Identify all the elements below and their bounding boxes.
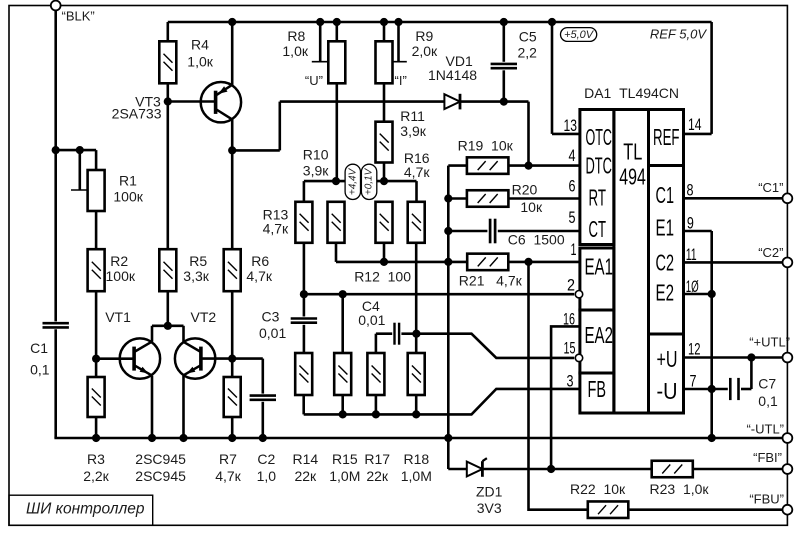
svg-text:2,2: 2,2	[518, 45, 538, 61]
svg-text:E2: E2	[656, 280, 675, 306]
svg-text:+U: +U	[657, 346, 678, 372]
svg-text:0,01: 0,01	[259, 325, 286, 341]
svg-text:C3: C3	[262, 308, 280, 324]
svg-text:0,01: 0,01	[358, 312, 385, 328]
svg-text:0,1: 0,1	[758, 393, 778, 409]
svg-text:R17: R17	[364, 451, 390, 467]
svg-text:3: 3	[567, 372, 574, 391]
svg-text:VT1: VT1	[105, 309, 131, 325]
svg-text:“U”: “U”	[305, 73, 323, 88]
svg-text:TL: TL	[623, 139, 642, 165]
svg-text:0,1: 0,1	[30, 362, 50, 378]
svg-text:100к: 100к	[106, 268, 136, 284]
svg-text:FB: FB	[588, 376, 607, 402]
svg-text:“FBU”: “FBU”	[749, 492, 784, 507]
svg-text:“BLK”: “BLK”	[62, 9, 95, 24]
svg-text:6: 6	[569, 177, 576, 196]
svg-text:9: 9	[687, 214, 694, 233]
svg-text:C7: C7	[758, 375, 776, 391]
svg-text:“-UTL”: “-UTL”	[746, 422, 784, 437]
svg-text:+0,1V: +0,1V	[364, 167, 375, 195]
svg-text:4,7к: 4,7к	[246, 268, 272, 284]
svg-text:1,0: 1,0	[257, 468, 277, 484]
svg-text:14: 14	[688, 115, 702, 134]
svg-text:4,7к: 4,7к	[215, 468, 241, 484]
svg-text:1N4148: 1N4148	[428, 67, 477, 83]
svg-text:“C1”: “C1”	[758, 180, 783, 195]
svg-text:“FBI”: “FBI”	[753, 450, 782, 465]
svg-text:4: 4	[569, 146, 576, 165]
svg-text:R7: R7	[219, 451, 237, 467]
svg-text:15: 15	[564, 339, 576, 358]
svg-text:R22 10к: R22 10к	[570, 481, 626, 497]
svg-text:2,2к: 2,2к	[83, 468, 109, 484]
svg-text:1: 1	[571, 240, 577, 259]
svg-text:8: 8	[687, 181, 694, 200]
svg-text:+4,4V: +4,4V	[347, 167, 358, 195]
svg-text:3,9к: 3,9к	[400, 123, 426, 139]
svg-text:R4: R4	[191, 36, 209, 52]
svg-text:4,7к: 4,7к	[263, 221, 289, 237]
svg-text:+5,0V: +5,0V	[564, 29, 595, 41]
svg-text:11: 11	[686, 245, 697, 264]
svg-text:3V3: 3V3	[477, 500, 502, 516]
svg-text:OTC: OTC	[586, 124, 613, 150]
svg-text:1Ø: 1Ø	[686, 277, 699, 296]
svg-text:CT: CT	[589, 216, 607, 242]
svg-text:16: 16	[563, 310, 575, 329]
svg-text:C1: C1	[30, 340, 48, 356]
svg-text:R14: R14	[292, 451, 318, 467]
svg-text:E1: E1	[656, 214, 675, 240]
svg-text:R11: R11	[400, 108, 425, 124]
svg-text:EA1: EA1	[585, 254, 614, 280]
svg-text:10к: 10к	[520, 199, 543, 215]
svg-text:R9: R9	[415, 28, 433, 44]
svg-text:R6: R6	[251, 253, 269, 269]
svg-text:494: 494	[619, 163, 646, 189]
svg-text:R8: R8	[287, 28, 305, 44]
svg-text:100к: 100к	[113, 189, 143, 205]
svg-text:R2: R2	[110, 253, 128, 269]
svg-text:7: 7	[690, 372, 697, 391]
svg-text:R10: R10	[303, 146, 329, 162]
svg-text:REF: REF	[653, 124, 680, 150]
svg-text:1,0к: 1,0к	[187, 53, 213, 69]
svg-text:R21 4,7к: R21 4,7к	[459, 272, 523, 288]
svg-text:1,0M: 1,0M	[329, 468, 360, 484]
svg-text:R19 10к: R19 10к	[458, 137, 514, 153]
svg-text:“C2”: “C2”	[758, 245, 783, 260]
svg-text:R1: R1	[119, 173, 137, 189]
svg-text:R23 1,0к: R23 1,0к	[650, 481, 710, 497]
svg-text:1,0к: 1,0к	[282, 43, 308, 59]
svg-text:R15: R15	[332, 451, 358, 467]
svg-text:“I”: “I”	[395, 73, 407, 88]
svg-text:12: 12	[688, 340, 701, 359]
svg-text:3,9к: 3,9к	[303, 163, 329, 179]
svg-text:C2: C2	[656, 250, 675, 276]
svg-text:RT: RT	[589, 184, 607, 210]
svg-text:R12 100: R12 100	[354, 268, 411, 284]
svg-text:13: 13	[564, 116, 578, 135]
svg-text:R18: R18	[403, 451, 429, 467]
svg-text:DA1 TL494CN: DA1 TL494CN	[584, 85, 679, 101]
svg-text:3,3к: 3,3к	[183, 268, 209, 284]
svg-text:C2: C2	[257, 451, 275, 467]
svg-text:“+UTL”: “+UTL”	[749, 335, 790, 350]
svg-text:R3: R3	[87, 451, 105, 467]
svg-text:2SC945: 2SC945	[135, 468, 186, 484]
svg-text:REF 5,0V: REF 5,0V	[650, 26, 707, 41]
svg-text:VT2: VT2	[191, 309, 217, 325]
svg-text:R20: R20	[512, 181, 538, 197]
svg-text:22к: 22к	[294, 468, 317, 484]
svg-text:5: 5	[569, 208, 576, 227]
svg-text:C1: C1	[656, 182, 675, 208]
svg-text:2SA733: 2SA733	[112, 106, 162, 122]
svg-text:R5: R5	[189, 253, 207, 269]
svg-text:4,7к: 4,7к	[404, 164, 430, 180]
svg-text:2: 2	[567, 276, 575, 295]
svg-text:2SC945: 2SC945	[135, 451, 186, 467]
svg-text:22к: 22к	[366, 468, 389, 484]
svg-text:C5: C5	[519, 28, 537, 44]
svg-text:2,0к: 2,0к	[412, 43, 438, 59]
svg-text:DTC: DTC	[586, 152, 613, 178]
svg-text:ШИ контроллер: ШИ контроллер	[26, 501, 145, 518]
svg-text:EA2: EA2	[585, 322, 614, 348]
svg-text:C6 1500: C6 1500	[508, 232, 565, 248]
svg-text:ZD1: ZD1	[476, 484, 503, 500]
svg-text:1,0M: 1,0M	[401, 468, 432, 484]
svg-text:-U: -U	[657, 378, 678, 404]
